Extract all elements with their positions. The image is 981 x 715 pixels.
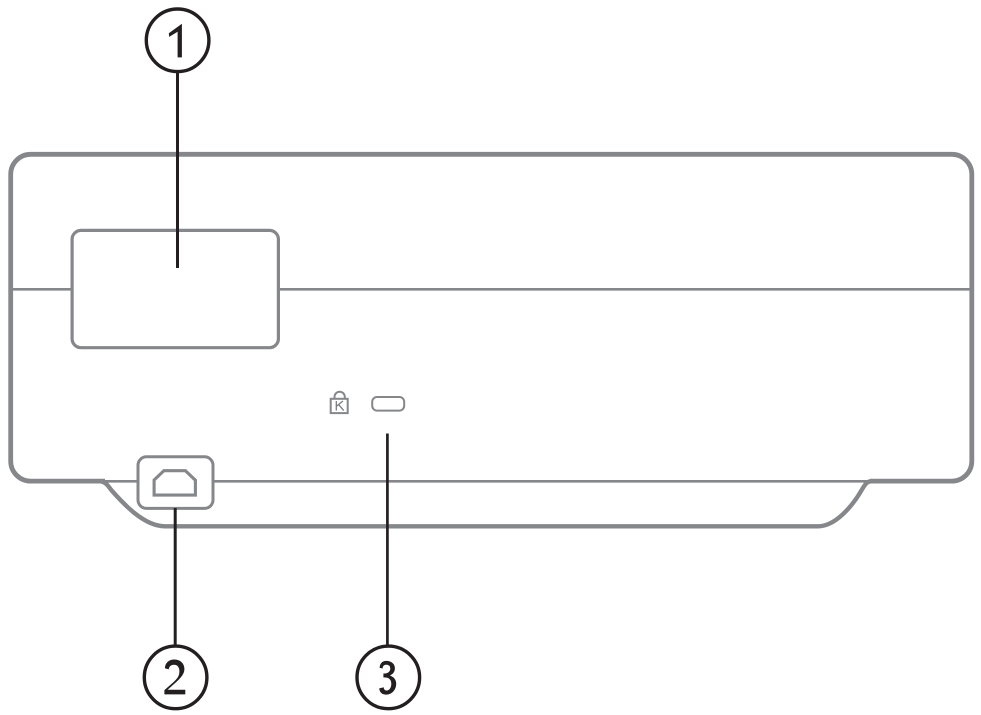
callout digit 3 (379, 661, 396, 695)
callout line 1 (176, 72, 179, 269)
base foot (100, 481, 872, 526)
kensington lock body (331, 399, 348, 413)
callout line 2 (174, 508, 177, 647)
power socket outline (138, 457, 213, 509)
bottom seam line (105, 480, 870, 483)
kensington slot (372, 397, 404, 411)
callout line 3 (386, 434, 389, 648)
middle seam line (12, 288, 970, 291)
callout digit 2 (164, 660, 185, 695)
lens block (72, 230, 278, 347)
kensington lock shackle (335, 392, 345, 399)
kensington K letter (336, 401, 343, 411)
callout digit 1 (169, 24, 182, 58)
callout circle 1 (146, 9, 209, 72)
power inlet icon (154, 471, 195, 495)
callout circle 3 (357, 646, 420, 709)
projector body outline (11, 154, 972, 481)
callout circle 2 (144, 646, 207, 709)
